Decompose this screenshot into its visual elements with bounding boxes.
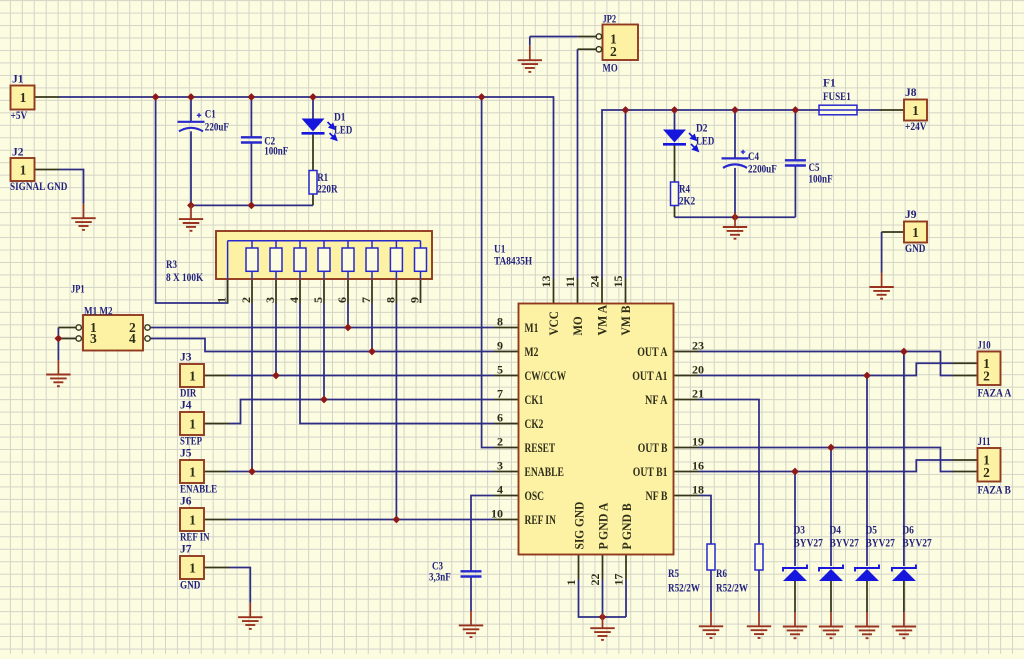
svg-text:1: 1 <box>189 513 196 528</box>
wire JP1 pins 1-3 to gnd <box>57 328 59 361</box>
wire JP2 pin1 to gnd <box>530 36 578 38</box>
wire REF IN net <box>229 519 494 521</box>
connector J6 <box>180 508 204 531</box>
svg-text:CK1: CK1 <box>525 393 544 407</box>
ground J9 <box>869 273 893 299</box>
pin U1 right NFA <box>674 399 699 401</box>
junction REFIN/R3.8 <box>393 516 401 524</box>
junction +5V rail <box>309 93 317 101</box>
wire diode to gnd <box>903 581 905 612</box>
junction OUT A/D6 <box>900 348 908 356</box>
junction OUT B/D4 <box>827 444 835 452</box>
pin U1 bottom SIGGND <box>578 555 580 580</box>
svg-text:J10: J10 <box>978 340 991 352</box>
wire +5V to R3 pin1 <box>156 97 228 303</box>
svg-text:D1: D1 <box>334 112 346 124</box>
pin R3.6 <box>347 279 349 303</box>
svg-text:J8: J8 <box>905 87 917 99</box>
wire R3 pin6 down <box>347 303 349 328</box>
svg-text:OUT A: OUT A <box>637 345 667 359</box>
svg-text:1: 1 <box>215 297 229 303</box>
pin U1 right NFB <box>674 495 699 497</box>
pin JP1.1 <box>58 327 76 329</box>
pin U1 top VMB <box>625 279 627 304</box>
wire P GND A down <box>602 580 604 618</box>
svg-text:D6: D6 <box>902 525 914 537</box>
pin JP2.2 <box>578 48 597 50</box>
svg-text:CK2: CK2 <box>525 417 544 431</box>
svg-text:2: 2 <box>983 368 990 383</box>
svg-text:C4: C4 <box>748 151 759 163</box>
svg-text:2: 2 <box>497 435 503 449</box>
wire D2 top <box>674 110 676 130</box>
svg-text:C1: C1 <box>205 109 216 121</box>
R3 element 4 <box>299 241 301 279</box>
wire +24 gnd rail <box>675 216 796 218</box>
svg-text:220R: 220R <box>317 184 338 196</box>
capacitor C5 <box>785 160 806 165</box>
junction C4 gnd <box>731 213 739 221</box>
LED D1 <box>302 119 337 141</box>
svg-text:100nF: 100nF <box>809 174 833 186</box>
svg-text:1: 1 <box>20 90 27 105</box>
svg-text:OUT A1: OUT A1 <box>632 369 667 383</box>
connector J5 <box>180 460 204 483</box>
pin circle JP2.1 <box>596 34 601 39</box>
capacitor C2 <box>241 137 262 142</box>
wire D1 top <box>312 97 314 119</box>
svg-text:2: 2 <box>610 44 617 59</box>
svg-text:1: 1 <box>189 561 196 576</box>
svg-text:2K2: 2K2 <box>679 196 695 208</box>
wire diode to gnd <box>794 581 796 612</box>
ground SIG GND <box>590 614 614 640</box>
connector J2 <box>11 158 35 181</box>
wire NF A to R6 <box>699 400 760 545</box>
capacitor C3 <box>461 571 482 576</box>
pin U1 right OUTB1 <box>674 471 699 473</box>
R3 element 5 <box>323 241 325 279</box>
svg-text:BYV27: BYV27 <box>794 538 824 550</box>
svg-text:J6: J6 <box>180 496 192 508</box>
resistor R6 <box>755 544 763 570</box>
svg-text:ENABLE: ENABLE <box>525 465 564 479</box>
svg-text:11: 11 <box>563 276 577 287</box>
pin U1 left M2 <box>494 351 519 353</box>
wire R3 pin4 to CK2 <box>300 303 494 424</box>
svg-text:J9: J9 <box>905 209 917 221</box>
pin U1 left CW <box>494 375 519 377</box>
svg-text:BYV27: BYV27 <box>866 538 896 550</box>
wire diode to gnd <box>830 581 832 612</box>
svg-text:LED: LED <box>334 125 352 137</box>
svg-text:6: 6 <box>335 297 349 303</box>
svg-text:4: 4 <box>287 297 301 303</box>
wire ENABLE net <box>229 471 494 473</box>
svg-text:MO: MO <box>603 63 618 75</box>
svg-text:SIGNAL GND: SIGNAL GND <box>10 181 67 193</box>
wire R3 pin7 down <box>371 303 373 352</box>
wire OUT A to D6 <box>903 352 905 567</box>
wire OUT B1 to J11.1 <box>699 460 953 472</box>
pin U1 left REF <box>494 519 519 521</box>
pin R3.4 <box>299 279 301 303</box>
wire OUT B1 to D3 <box>794 472 796 567</box>
svg-text:22: 22 <box>588 574 602 586</box>
pin J7.1 <box>204 567 229 569</box>
wire C4 bottom <box>734 168 736 217</box>
svg-text:100nF: 100nF <box>264 146 288 158</box>
ground C3 <box>459 611 483 637</box>
wire C4 top <box>734 110 736 158</box>
svg-text:R6: R6 <box>716 568 727 580</box>
svg-text:R4: R4 <box>679 184 690 196</box>
wire C1 bottom <box>190 131 192 205</box>
pin circle JP2.2 <box>596 47 601 52</box>
svg-text:GND: GND <box>905 243 925 255</box>
svg-text:13: 13 <box>539 276 553 288</box>
svg-text:NF A: NF A <box>645 393 668 407</box>
svg-text:15: 15 <box>611 276 625 288</box>
pin R3.2 <box>251 279 253 303</box>
pin U1 left ENA <box>494 471 519 473</box>
wire OUT B to J11.2 <box>699 448 953 472</box>
pin U1 right OUTA <box>674 351 699 353</box>
resistor network R3 body <box>216 231 432 279</box>
svg-text:16: 16 <box>692 459 704 473</box>
svg-text:1: 1 <box>912 103 919 118</box>
pin J2.1 <box>35 169 60 171</box>
svg-text:J1: J1 <box>12 74 24 86</box>
wire gnd rail <box>191 204 313 206</box>
svg-text:FAZA B: FAZA B <box>978 485 1012 497</box>
svg-text:P GND B: P GND B <box>620 503 634 549</box>
wire OUT A to J10.2 <box>699 352 953 376</box>
pin R3.9 <box>420 279 422 303</box>
svg-text:M1: M1 <box>525 321 539 335</box>
svg-text:17: 17 <box>612 574 626 586</box>
junction P GND A <box>599 613 607 621</box>
svg-text:JP1: JP1 <box>71 284 85 296</box>
wire OUT B to D4 <box>830 448 832 567</box>
svg-text:J2: J2 <box>12 147 24 159</box>
svg-text:D3: D3 <box>794 525 806 537</box>
pin circle JP1.4 <box>145 336 150 341</box>
pin J6.1 <box>204 519 229 521</box>
header JP1 <box>83 315 143 351</box>
pin J1.1 <box>35 96 60 98</box>
diode D4 <box>819 565 843 582</box>
pin circle JP1.3 <box>76 336 81 341</box>
svg-text:10: 10 <box>491 507 503 521</box>
wire R1 to gnd rail <box>312 194 314 205</box>
svg-text:2: 2 <box>983 465 990 480</box>
junction +24V rail <box>622 106 630 114</box>
wire STEP to CK1 <box>229 400 494 424</box>
R3 element 8 <box>395 241 397 279</box>
svg-text:R52/2W: R52/2W <box>716 583 748 595</box>
pin J11.1 <box>953 459 978 461</box>
junction JP1 gnd <box>55 335 63 343</box>
junction M1/R3.6 <box>344 324 352 332</box>
svg-text:21: 21 <box>692 387 704 401</box>
pin J3.1 <box>204 375 229 377</box>
svg-text:C5: C5 <box>809 162 820 174</box>
svg-text:7: 7 <box>359 297 373 303</box>
svg-text:JP2: JP2 <box>603 14 617 26</box>
IC U1 TA8435H body <box>519 304 674 555</box>
svg-text:VM B: VM B <box>619 306 633 336</box>
svg-text:1: 1 <box>189 369 196 384</box>
pin U1 left CK1 <box>494 399 519 401</box>
pin J4.1 <box>204 423 229 425</box>
svg-text:9: 9 <box>497 339 503 353</box>
wire diode to gnd <box>866 581 868 612</box>
connector J11 <box>978 448 1001 482</box>
junction +5V rail <box>187 93 195 101</box>
svg-text:5: 5 <box>311 297 325 303</box>
ground C4 <box>723 213 747 239</box>
junction +24V rail <box>792 106 800 114</box>
svg-text:D2: D2 <box>696 123 708 135</box>
svg-text:M1 M2: M1 M2 <box>84 306 113 318</box>
ground C1 <box>179 205 203 231</box>
svg-text:M2: M2 <box>525 345 539 359</box>
svg-text:BYV27: BYV27 <box>902 538 932 550</box>
pin circle JP1.2 <box>145 325 150 330</box>
wire R4 down <box>674 206 676 218</box>
svg-text:J7: J7 <box>180 544 192 556</box>
wire +5V to RESET <box>482 97 494 448</box>
wire +5V rail <box>60 97 554 279</box>
R3 element 6 <box>347 241 349 279</box>
svg-text:BYV27: BYV27 <box>830 538 860 550</box>
junction CW/R3.3 <box>272 372 280 380</box>
junction gnd rail <box>248 202 256 210</box>
pin R3.5 <box>323 279 325 303</box>
svg-text:3: 3 <box>497 459 503 473</box>
ground J2 <box>71 204 95 230</box>
junction +5V rail <box>478 93 486 101</box>
svg-text:VCC: VCC <box>547 311 561 335</box>
svg-text:F1: F1 <box>823 78 836 90</box>
wire OSC to C3 <box>471 496 494 572</box>
fuse F1 <box>819 105 857 115</box>
svg-text:+24V: +24V <box>905 121 927 133</box>
svg-text:J11: J11 <box>978 436 991 448</box>
wire J2 to gnd <box>60 170 84 204</box>
wire C2 top <box>250 97 252 137</box>
pin U1 top VMA <box>601 279 603 304</box>
pin JP1.3 <box>58 338 76 340</box>
wire J8 to fuse <box>857 109 879 111</box>
svg-text:TA8435H: TA8435H <box>494 256 532 268</box>
svg-text:+5V: +5V <box>11 110 28 122</box>
ground R6 <box>747 611 771 638</box>
ground R5 <box>699 611 723 638</box>
pin JP1.2 <box>145 327 151 329</box>
pin R3.3 <box>275 279 277 303</box>
connector J3 <box>180 364 204 387</box>
svg-text:J3: J3 <box>180 352 192 364</box>
pin U1 left CK2 <box>494 423 519 425</box>
ground D6 <box>892 612 916 638</box>
wire J9 to gnd <box>881 232 883 273</box>
ground D5 <box>855 612 879 638</box>
svg-text:2: 2 <box>239 297 253 303</box>
wire R3 pin3 down <box>275 303 277 376</box>
svg-text:CW/CCW: CW/CCW <box>525 369 567 383</box>
junction OUT A1/D5 <box>863 372 871 380</box>
capacitor C1 <box>178 122 205 132</box>
connector J8 <box>904 100 927 121</box>
wire R3 pin8 down <box>395 303 397 520</box>
pin circle JP1.1 <box>76 325 81 330</box>
ground J7 <box>238 603 262 629</box>
R3 element 3 <box>275 241 277 279</box>
svg-text:SIG GND: SIG GND <box>573 502 587 550</box>
diode D6 <box>892 565 916 582</box>
svg-text:220uF: 220uF <box>205 122 229 134</box>
wire NF B to R5 <box>699 496 712 545</box>
pin J10.2 <box>953 375 978 377</box>
resistor R1 <box>309 171 317 195</box>
svg-text:MO: MO <box>571 316 585 335</box>
svg-text:R5: R5 <box>668 568 679 580</box>
svg-text:3: 3 <box>263 297 277 303</box>
pin J8.1 <box>879 109 904 111</box>
capacitor C4 <box>722 158 749 168</box>
svg-text:GND: GND <box>180 580 200 592</box>
svg-text:NF B: NF B <box>646 489 668 503</box>
pin J5.1 <box>204 471 229 473</box>
svg-text:OUT B1: OUT B1 <box>633 465 668 479</box>
pin R3.8 <box>395 279 397 303</box>
diode D3 <box>783 565 807 582</box>
wire JP2 pin2 MO net <box>577 49 579 278</box>
svg-text:9: 9 <box>408 297 422 303</box>
junction M2/R3.7 <box>368 348 376 356</box>
svg-text:3,3nF: 3,3nF <box>429 572 451 584</box>
wire C1 top <box>190 97 192 122</box>
connector J7 <box>180 556 204 579</box>
R3 element 2 <box>251 241 253 279</box>
wire R3 pin5 down <box>323 303 325 400</box>
junction CK1/R3.5 <box>320 396 328 404</box>
pin JP2.1 <box>578 36 596 38</box>
R3 element 9 <box>420 241 422 279</box>
wire CW/CCW net <box>229 375 494 377</box>
wire SIG GND rail <box>579 580 627 618</box>
pin U1 left OSC <box>494 495 519 497</box>
svg-text:8: 8 <box>383 297 397 303</box>
svg-text:P GND A: P GND A <box>597 503 611 550</box>
svg-text:3: 3 <box>90 331 97 346</box>
connector J10 <box>978 352 1001 386</box>
wire C5 top <box>794 110 796 160</box>
svg-text:8: 8 <box>497 315 503 329</box>
svg-text:4: 4 <box>129 331 136 346</box>
pin J9.1 <box>882 231 904 233</box>
svg-text:7: 7 <box>497 387 503 401</box>
wire D2 to R4 <box>674 146 676 183</box>
svg-text:OSC: OSC <box>525 489 545 503</box>
header JP2 <box>603 25 639 61</box>
wire C5 bottom <box>794 166 796 217</box>
junction OUT B1/D3 <box>791 468 799 476</box>
svg-text:R52/2W: R52/2W <box>668 583 700 595</box>
resistor R5 <box>707 544 715 570</box>
svg-text:1: 1 <box>189 417 196 432</box>
ground D3 <box>783 612 807 638</box>
svg-text:2200uF: 2200uF <box>748 164 777 176</box>
pin JP1.4 <box>145 338 151 340</box>
svg-text:20: 20 <box>692 363 704 377</box>
pin U1 bottom PGNDA <box>602 555 604 580</box>
junction +5V rail <box>248 93 256 101</box>
svg-text:DIR: DIR <box>180 388 197 400</box>
wire R3 pin2 down <box>251 303 253 472</box>
svg-text:REF IN: REF IN <box>180 532 210 544</box>
svg-text:D4: D4 <box>830 525 842 537</box>
diode D5 <box>855 565 879 582</box>
junction +5V rail <box>152 93 160 101</box>
wire R6 to gnd <box>758 570 760 611</box>
junction ENABLE/R3.2 <box>248 468 256 476</box>
pin J10.1 <box>953 362 978 364</box>
svg-text:1: 1 <box>564 580 578 586</box>
pin U1 right OUTB <box>674 447 699 449</box>
connector J4 <box>180 412 204 435</box>
wire P GND B down <box>625 580 627 618</box>
pin U1 right OUTA1 <box>674 375 699 377</box>
resistor R4 <box>671 182 679 206</box>
wire VMB drop <box>625 110 627 279</box>
wire M1 net <box>151 327 495 329</box>
connector J1 <box>11 86 35 110</box>
svg-text:STEP: STEP <box>180 436 202 448</box>
svg-text:REF IN: REF IN <box>525 513 556 527</box>
svg-text:R3: R3 <box>166 259 177 271</box>
svg-text:J5: J5 <box>180 448 192 460</box>
LED D2 <box>663 130 698 152</box>
R3 element 7 <box>371 241 373 279</box>
svg-text:U1: U1 <box>494 244 506 256</box>
svg-text:4: 4 <box>497 483 503 497</box>
svg-text:6: 6 <box>497 411 503 425</box>
wire OUT A1 to J10.1 <box>699 363 953 375</box>
pin R3.1 <box>227 279 229 303</box>
wire J7 to gnd <box>229 568 250 603</box>
pin U1 left M1 <box>494 327 519 329</box>
svg-text:1: 1 <box>20 162 27 177</box>
pin U1 top VCC <box>553 279 555 304</box>
svg-text:FAZA A: FAZA A <box>978 388 1012 400</box>
wire C3 to gnd <box>470 577 472 611</box>
svg-text:FUSE1: FUSE1 <box>823 91 851 103</box>
svg-text:23: 23 <box>692 339 704 353</box>
svg-text:R1: R1 <box>317 172 328 184</box>
pin U1 top MO <box>577 279 579 304</box>
svg-text:LED: LED <box>696 136 714 148</box>
svg-text:18: 18 <box>692 483 704 497</box>
wire C2 bottom <box>250 143 252 205</box>
wire OUT A1 to D5 <box>866 376 868 567</box>
pin U1 bottom PGNDB <box>625 555 627 580</box>
ground JP2 <box>518 37 542 72</box>
pin R3.7 <box>371 279 373 303</box>
svg-text:1: 1 <box>912 225 919 240</box>
